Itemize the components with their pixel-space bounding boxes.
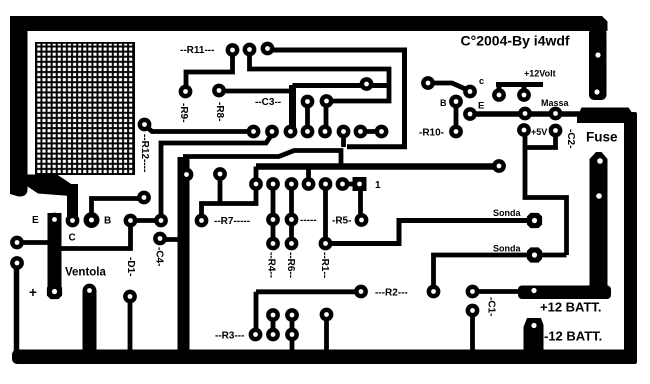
svg-text:-C2-: -C2-: [565, 129, 576, 148]
wire R3 left up to R2 left: [256, 292, 361, 335]
svg-text:Sonda: Sonda: [493, 244, 521, 254]
+12 BATT bar: [518, 286, 611, 300]
thick trace Ventola bar 2: [83, 290, 97, 352]
power bar1 top right (fuse feed): [589, 28, 607, 100]
node hook pad: [360, 77, 374, 91]
svg-text:--R12----: --R12----: [139, 134, 150, 172]
resistor R7 pads: [195, 214, 209, 228]
resistor R8 top pad: [212, 84, 226, 98]
svg-text:-----: -----: [300, 215, 317, 226]
wire pad 326 to border: [324, 315, 329, 353]
svg-text:Sonda: Sonda: [493, 208, 521, 218]
wire Sonda1 net: R1 top right, up, right: [326, 221, 535, 244]
transistor T2 collector pads: [421, 76, 435, 90]
node pad x220: [213, 167, 227, 181]
wire R11 net: right, down, left: [268, 50, 405, 147]
connector row y184 pads: [249, 177, 263, 191]
-12 BATT pad and bar: [524, 318, 544, 352]
svg-text:-C4-: -C4-: [154, 247, 165, 266]
resistor R12 pads: [138, 118, 152, 132]
fuse slot pad: [590, 152, 608, 290]
ground blob at left border end: [26, 175, 71, 197]
svg-text:-C1-: -C1-: [486, 297, 497, 316]
diode D1 top pad: [124, 214, 138, 228]
connector pin 1 square pad: [353, 177, 367, 191]
svg-text:+12 BATT.: +12 BATT.: [540, 300, 602, 315]
wire pad 220 down: [218, 174, 223, 204]
wire pad 307 vertical dumbbell: [305, 102, 310, 132]
svg-text:-R9-: -R9-: [178, 103, 189, 122]
wire D1 bottom pad to border: [128, 297, 133, 353]
Ventola + pad: [47, 284, 62, 299]
svg-text:--R11---: --R11---: [180, 45, 214, 56]
wire pad 326 vertical dumbbell: [324, 101, 329, 132]
grid plane (heatsink area): [35, 42, 135, 175]
svg-text:-R10-: -R10-: [419, 128, 444, 139]
wire +12Volt header: [496, 82, 543, 87]
transistor C thick vertical: [67, 184, 78, 222]
resistor R3 pad row: [249, 328, 263, 342]
wire Massa line: [470, 111, 580, 117]
+5V pads (C2): [517, 123, 531, 137]
wire bus stub to pad 256: [254, 167, 259, 185]
resistor R2 pads: [354, 285, 368, 299]
svg-text:-R5-: -R5-: [332, 216, 351, 227]
bus end pad: [492, 159, 506, 173]
wire R10 vertical: [454, 102, 459, 132]
board border bottom: [12, 350, 637, 365]
resistor R4 / R6 bottom pads: [266, 237, 280, 251]
mid-bar top pad: [180, 168, 194, 182]
wire C4 bottom pad to mid bar: [160, 237, 183, 242]
wire R12 top pad to pad row: [145, 125, 254, 132]
wire net B: from R11 pad2 down, right, down, left to pad: [250, 50, 390, 101]
board border top: [10, 16, 608, 31]
svg-text:C: C: [69, 233, 76, 244]
wire +5V right pad leg: [526, 131, 556, 148]
+12Volt pads: [492, 88, 506, 102]
svg-text:C°2004-By i4wdf: C°2004-By i4wdf: [461, 33, 570, 49]
wire resistor R6 column: [289, 184, 294, 244]
wire C1 bottom to border: [470, 311, 475, 353]
border chamfer join (Massa to right border): [577, 108, 637, 124]
thick trace mid vertical bar: [178, 157, 190, 352]
wire P1 to C4 pad: [131, 218, 162, 223]
resistor R9 top pad: [179, 85, 193, 99]
left edge pads: [10, 236, 24, 250]
svg-text:E: E: [478, 101, 484, 112]
svg-text:B: B: [104, 216, 111, 227]
wire R3 dumbbell 1: [271, 315, 276, 335]
capacitor C3 pad row y131: [247, 125, 261, 139]
wire jumper pad to square pad: [343, 182, 360, 187]
capacitor C1 pads: [466, 285, 480, 299]
wire R7 left pad up and to pad 256: [202, 184, 257, 221]
wire Sonda2 to +5V left pad: [525, 131, 567, 255]
wire R11 pad1 to R9 top: [186, 50, 233, 92]
svg-text:Ventola: Ventola: [65, 267, 107, 279]
wire left pad2 to bottom border: [14, 263, 20, 352]
wire resistor R4 column: [271, 184, 276, 244]
wire C3 thick vertical: [289, 85, 296, 132]
svg-text:-R8-: -R8-: [214, 102, 225, 121]
svg-text:--R4--: --R4--: [266, 252, 277, 278]
node pads above C3 row: [301, 95, 315, 109]
svg-text:-12 BATT.: -12 BATT.: [544, 329, 602, 344]
svg-text:--R3---: --R3---: [215, 331, 244, 342]
diode D1 bottom pad: [123, 290, 137, 304]
wire hook pad horizontal y85.5: [293, 83, 390, 88]
wire R8 top pad to C3 vertical: [219, 89, 293, 94]
svg-text:1: 1: [375, 180, 381, 191]
wire Sonda2 net: R2R up, right: [434, 255, 567, 292]
resistor R1 top pad: [319, 237, 333, 251]
transistor T1 collector pad: [66, 214, 80, 228]
power bar1 pad holes: [595, 52, 600, 57]
svg-text:c: c: [479, 76, 484, 86]
transistor T1 base pad: [84, 212, 100, 228]
transistor T1 emitter pad: [48, 213, 62, 227]
wire resistor R1 column: [323, 184, 328, 244]
svg-text:--C3--: --C3--: [255, 97, 281, 108]
svg-text:+5V: +5V: [531, 127, 547, 137]
wire square pad down to R5 right: [358, 188, 363, 220]
svg-text:-D1-: -D1-: [125, 257, 136, 276]
svg-text:B: B: [440, 98, 447, 108]
wire R3 dumbbell 2 and leg to border: [290, 315, 295, 352]
wire C1 top to +12 BATT bar: [473, 289, 521, 294]
transistor T2 emitter pad (Massa line): [463, 107, 477, 121]
wire D1/P1 down-left to E bar: [61, 221, 131, 249]
svg-text:+: +: [29, 285, 37, 300]
Ventola bar2 pad: [83, 284, 97, 298]
svg-text:---R2---: ---R2---: [375, 288, 408, 299]
resistor R5 right pad: [355, 213, 369, 227]
wire bus stub to pad 308: [306, 167, 311, 185]
wire transistor B to pad: [92, 199, 145, 221]
wire C4 net: vertical x161, horizontal y143, diagonal to pad: [161, 134, 273, 221]
wire row jumper y131: [361, 129, 382, 134]
resistor R6 top / R5 left pad: [285, 213, 299, 227]
board border left: [10, 16, 28, 197]
Massa pads: [518, 107, 532, 121]
svg-text:--R6--: --R6--: [285, 252, 296, 278]
wire R11 stub to pad row: [341, 134, 346, 148]
svg-text:E: E: [32, 215, 39, 226]
wire mid-bar top to bus riser: [183, 151, 341, 167]
Sonda pads: [527, 213, 542, 228]
node -12 BATT pad hole: [531, 323, 536, 328]
node +12 BATT pad hole: [531, 288, 536, 293]
thick trace E bar (Ventola +): [48, 213, 62, 292]
capacitor C4 pads: [154, 214, 168, 228]
board border right: [624, 112, 637, 364]
resistor R10 bottom pad: [449, 125, 463, 139]
wire transistor C pads link: [428, 83, 470, 91]
svg-text:--R1--: --R1--: [319, 252, 330, 278]
resistor R11 pads: [226, 43, 240, 57]
wire main bus y166: [256, 163, 499, 170]
wire left pad to E bar: [17, 240, 48, 245]
svg-text:+12Volt: +12Volt: [524, 69, 556, 79]
svg-text:--R7-----: --R7-----: [214, 216, 250, 227]
svg-text:Massa: Massa: [541, 98, 570, 108]
transistor T2 base pad / R10 top: [449, 95, 463, 109]
fuse slot pad holes: [597, 158, 603, 164]
svg-text:Fuse: Fuse: [586, 130, 618, 145]
R3 area upper pads: [266, 308, 280, 322]
